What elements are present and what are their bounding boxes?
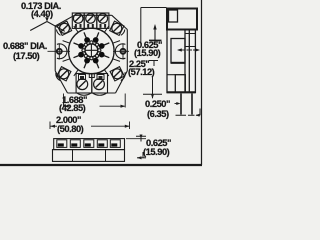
right ear arc — [115, 44, 125, 59]
left ear arc — [57, 44, 67, 59]
bottom terminal square 1 — [76, 74, 92, 94]
keyway bumps — [82, 41, 101, 60]
dim text 2.25 (57.12) — [128, 59, 155, 77]
pin contacts (8 black) — [78, 37, 104, 63]
right ear hole — [121, 49, 126, 54]
side view top notch — [169, 10, 178, 22]
top terminal clamp marks — [75, 24, 106, 28]
svg-text:0.688" DIA.: 0.688" DIA. — [3, 41, 47, 51]
svg-text:(4.40): (4.40) — [31, 9, 53, 19]
dim text 0.625 (15.90) bottom — [143, 138, 171, 157]
pin end ticks — [176, 114, 195, 116]
leader arrow for 0.173 DIA — [46, 14, 48, 17]
0.250 leader arrow — [175, 103, 178, 105]
mounting hole centerline with arrows — [178, 49, 185, 51]
top-right diagonal screw — [110, 21, 124, 35]
center hole circle — [85, 44, 98, 57]
main circle — [69, 28, 115, 74]
bottom-left diagonal screw — [57, 67, 71, 81]
page bottom rule — [0, 164, 202, 166]
dim text 0.173 DIA (4.40) — [21, 1, 61, 19]
left ear hole — [57, 49, 62, 54]
front view right dim 0.625 — [126, 138, 146, 140]
0.625 tick and up arrow — [149, 39, 162, 41]
contact slots radial ticks — [74, 32, 110, 68]
front view lip — [54, 139, 125, 150]
svg-text:(15.90): (15.90) — [134, 48, 161, 58]
top terminal square 3 — [97, 13, 109, 28]
dim text 1.688 (42.85) — [59, 95, 87, 113]
center crosshair — [82, 41, 100, 59]
side view bottom edge — [167, 91, 196, 93]
side view pins — [181, 94, 192, 115]
front view body — [53, 150, 125, 162]
top-left diagonal screw — [57, 21, 71, 35]
bottom terminal screw 2 — [94, 79, 105, 90]
right ear crosshair — [113, 44, 129, 60]
dim 1.688 extension lines — [64, 94, 126, 108]
dim text 2.000 (50.80) — [56, 115, 84, 134]
bottom reference tick — [143, 93, 162, 95]
2.25 down arrow — [152, 76, 154, 98]
right L mark — [196, 109, 200, 116]
svg-text:(15.90): (15.90) — [143, 147, 170, 157]
bottom terminal square 2 — [92, 74, 108, 94]
svg-text:(50.80): (50.80) — [57, 124, 84, 134]
front view internal verticals — [73, 150, 106, 162]
side view right verticals — [189, 30, 195, 94]
top terminal screw 1 — [73, 14, 83, 24]
svg-text:(42.85): (42.85) — [59, 103, 86, 113]
side view right strip ticks — [185, 34, 195, 47]
bottom scallop bumps — [77, 93, 107, 95]
bottom-right diagonal screw — [110, 67, 124, 81]
dim text 0.688 DIA (17.50) — [3, 41, 47, 61]
top terminal screw 2 — [86, 14, 96, 24]
top view octagon outline — [55, 15, 127, 93]
top terminal square 1 — [72, 13, 84, 28]
left ear crosshair — [48, 44, 71, 60]
side view inner box — [171, 39, 185, 64]
side view left edge — [166, 30, 168, 94]
bottom terminal screw 1 — [77, 79, 88, 90]
dim 2.000 arrows — [50, 125, 57, 127]
side view mid vertical — [184, 30, 186, 94]
ext line vertical — [140, 8, 142, 44]
2.25 tick — [149, 61, 158, 67]
front view terminal blocks — [57, 140, 121, 148]
dim text 0.250 (6.35) — [145, 99, 170, 119]
ext line top — [141, 7, 167, 9]
svg-text:(17.50): (17.50) — [13, 51, 40, 61]
dim text 0.625 (15.90) — [134, 40, 162, 58]
svg-text:(6.35): (6.35) — [147, 109, 169, 119]
svg-text:(57.12): (57.12) — [128, 67, 155, 77]
bottom center tab — [89, 74, 94, 78]
side view lower-left details — [167, 74, 176, 76]
top terminal screw 3 — [98, 14, 108, 24]
side view top block — [167, 9, 197, 30]
svg-text:0.250": 0.250" — [145, 99, 170, 109]
dim 1.688 arrows — [64, 105, 70, 107]
dim 2.000 extension lines — [50, 122, 130, 130]
page frame right line — [201, 0, 203, 165]
radial mold lines — [63, 26, 120, 76]
top terminal square 2 — [84, 13, 97, 28]
